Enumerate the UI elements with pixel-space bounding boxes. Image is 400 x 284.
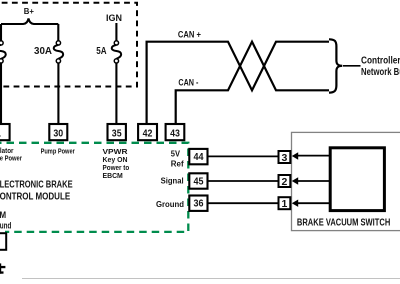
- svg-text:Valve Power: Valve Power: [0, 153, 22, 162]
- svg-text:43: 43: [170, 127, 180, 139]
- svg-text:M: M: [0, 210, 6, 220]
- svg-text:Pump Power: Pump Power: [41, 148, 75, 155]
- svg-text:und: und: [0, 221, 11, 231]
- svg-text:1: 1: [0, 128, 1, 140]
- svg-text:44: 44: [194, 152, 204, 163]
- svg-text:35: 35: [112, 127, 122, 139]
- svg-text:30A: 30A: [34, 46, 52, 57]
- svg-text:CONTROL MODULE: CONTROL MODULE: [0, 191, 70, 202]
- svg-text:ELECTRONIC BRAKE: ELECTRONIC BRAKE: [0, 179, 73, 190]
- svg-text:Ref: Ref: [171, 159, 184, 169]
- svg-text:BRAKE VACUUM SWITCH: BRAKE VACUUM SWITCH: [297, 218, 390, 229]
- svg-text:Ground: Ground: [156, 199, 184, 209]
- svg-text:3: 3: [281, 152, 287, 164]
- svg-text:45: 45: [194, 177, 204, 188]
- svg-text:Signal: Signal: [161, 175, 184, 185]
- svg-text:30: 30: [53, 127, 63, 139]
- svg-text:2: 2: [281, 176, 287, 188]
- svg-text:36: 36: [194, 199, 204, 210]
- svg-text:Controller Area: Controller Area: [361, 55, 400, 66]
- svg-text:IGN: IGN: [106, 13, 122, 24]
- svg-text:1: 1: [281, 198, 287, 210]
- svg-text:CAN -: CAN -: [178, 77, 198, 87]
- svg-text:B+: B+: [24, 6, 34, 16]
- svg-text:EBCM: EBCM: [103, 171, 123, 180]
- svg-text:5A: 5A: [96, 46, 106, 57]
- svg-text:42: 42: [143, 127, 153, 139]
- svg-text:Network Bus: Network Bus: [361, 67, 400, 78]
- svg-text:5V: 5V: [171, 149, 180, 159]
- svg-text:CAN +: CAN +: [178, 30, 201, 40]
